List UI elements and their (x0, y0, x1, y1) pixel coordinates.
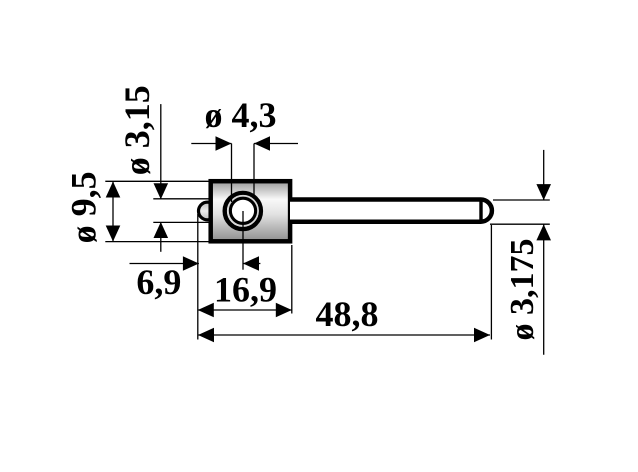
svg-text:48,8: 48,8 (316, 294, 379, 334)
arrow o3.175 up (536, 224, 551, 240)
hole outer ring (225, 193, 261, 229)
svg-text:16,9: 16,9 (214, 270, 277, 310)
arrow 16.9 left (198, 303, 214, 318)
svg-text:ø 9,5: ø 9,5 (64, 171, 104, 243)
wire: 6.9 dim left tail (130, 263, 199, 265)
arrow o3.15 down (154, 183, 169, 199)
rod (stem) (290, 200, 492, 222)
body block (211, 181, 290, 241)
wire: o3.15 dim line upper (160, 104, 162, 199)
wire: o3.175 dim line lower (543, 224, 545, 354)
wire: dim line o4.3 left tail (191, 143, 231, 145)
wire: 16.9 dim line (198, 309, 292, 311)
svg-text:ø 3,175: ø 3,175 (504, 239, 541, 341)
wire: ext line body right (291, 245, 293, 314)
arrow o3.175 down (536, 184, 551, 200)
hole gap ring (228, 196, 258, 226)
arrow 48.8 right (474, 328, 490, 343)
wire: o9.5 dim line (112, 182, 114, 242)
wire: 48.8 dim line (198, 334, 490, 336)
arrow o4.3 left-pointing (254, 136, 270, 151)
hole inner ring (230, 198, 255, 223)
bump (side lug) (199, 202, 217, 220)
wire: ext line o4.3 right (253, 144, 255, 197)
wire: o3.175 dim line upper (543, 150, 545, 200)
ball flat line (479, 199, 482, 223)
wire: ext line o3.15 top (153, 198, 209, 200)
arrow 6.9 left-pointing (243, 256, 259, 271)
wire: dim line o4.3 right tail (254, 143, 298, 145)
svg-text:ø 3,15: ø 3,15 (117, 85, 157, 175)
wire: ext line o9.5 top (105, 180, 212, 182)
wire: ext line o3.15 bottom (153, 221, 209, 223)
arrow 16.9 right (276, 303, 292, 318)
wire: ext line o4.3 left (231, 144, 233, 203)
wire: ext line o3.175 top (493, 199, 550, 201)
arrow 6.9 right-pointing (183, 256, 199, 271)
svg-text:6,9: 6,9 (136, 262, 181, 302)
arrow o4.3 right-pointing (216, 136, 232, 151)
wire: hole centerline (242, 211, 244, 270)
arrow 48.8 left (198, 328, 214, 343)
arrow o3.15 up (154, 222, 169, 238)
wire: left ext line (bump tip) (197, 214, 199, 340)
svg-text:ø 4,3: ø 4,3 (205, 95, 277, 135)
arrow o9.5 up (106, 182, 121, 198)
arrow o9.5 down (106, 226, 121, 242)
wire: o3.15 dim line lower (160, 222, 162, 252)
wire: ext line o9.5 bottom (105, 241, 212, 243)
wire: ext line rod tip (490, 225, 492, 340)
wire: ext line o3.175 bottom (490, 223, 550, 225)
wire: 6.9 dim right tail (243, 263, 260, 265)
